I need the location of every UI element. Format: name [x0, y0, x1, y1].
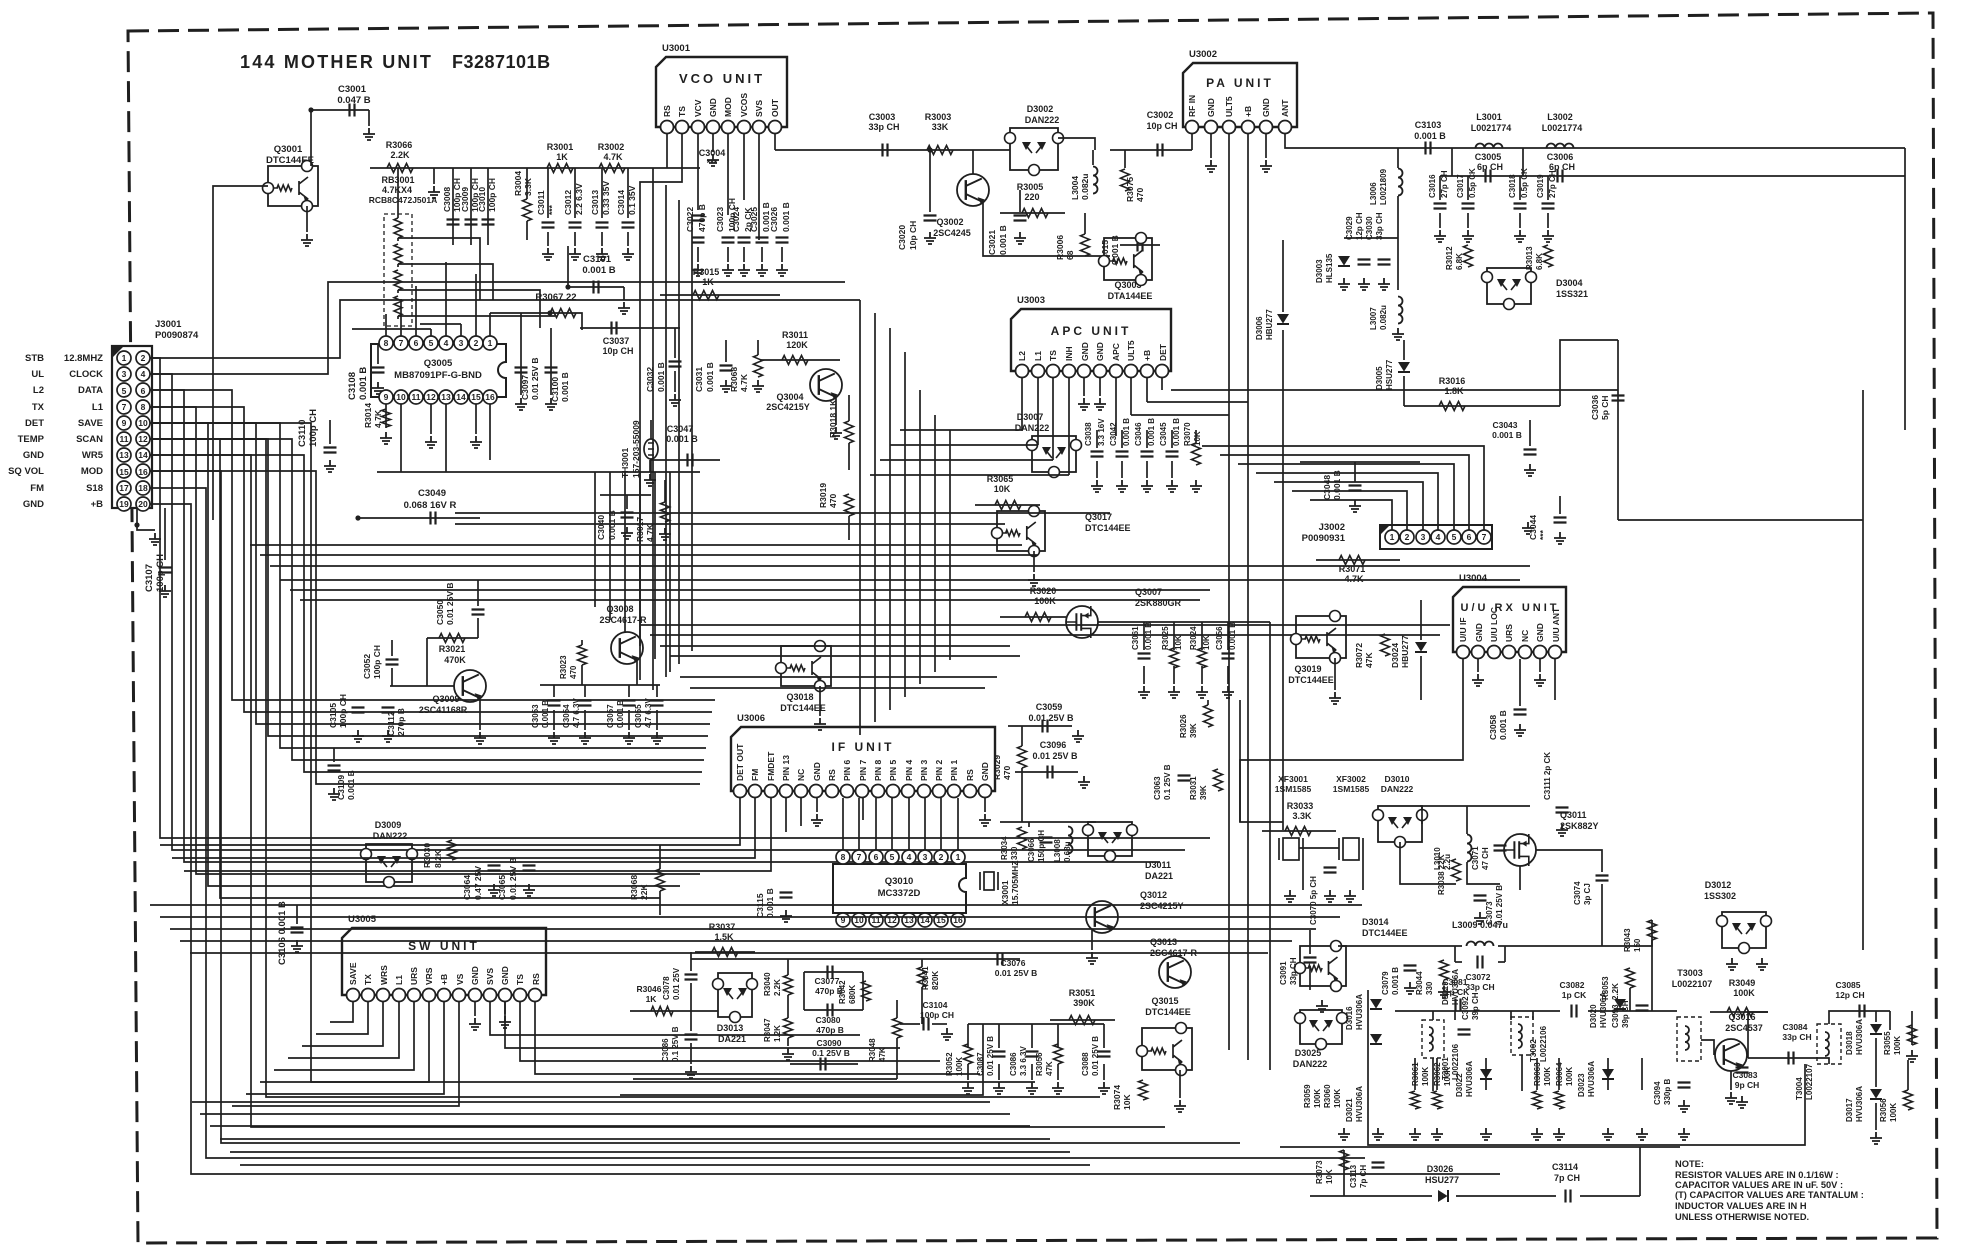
svg-text:D3007: D3007 — [1017, 412, 1044, 422]
pin 10 of J3001 — [136, 416, 150, 430]
wire C3046 b — [1146, 461, 1148, 478]
capacitor C3037 — [612, 322, 617, 335]
ground C3043 — [1524, 464, 1536, 476]
svg-text:100K: 100K — [1443, 1067, 1452, 1086]
svg-text:R3044: R3044 — [1415, 971, 1424, 995]
capacitor C3014 — [622, 223, 635, 228]
wire IF RS down — [862, 798, 864, 820]
svg-text:0.001 B: 0.001 B — [1492, 430, 1522, 440]
ground IF GND2 — [979, 814, 991, 826]
ground Q3009 — [474, 732, 486, 744]
svg-text:100p CH: 100p CH — [920, 1010, 954, 1020]
pin FMDET of U3006 — [765, 785, 778, 798]
wire Q3002 collector — [972, 150, 974, 174]
svg-text:D3002: D3002 — [1027, 104, 1054, 114]
bus wire ladder 11 — [670, 655, 1020, 657]
wire R3011 — [760, 359, 840, 361]
svg-text:4: 4 — [1436, 532, 1441, 542]
svg-text:8: 8 — [384, 338, 389, 348]
svg-text:R3006: R3006 — [1055, 235, 1065, 260]
wire C3056 b — [1227, 666, 1229, 684]
ground RX GND — [1472, 674, 1484, 686]
junction under J3001 — [134, 522, 139, 527]
resistor R3024 — [1198, 648, 1207, 668]
svg-text:9: 9 — [122, 418, 127, 428]
pin 13 of Q3005 — [439, 390, 453, 404]
wire C3038 — [1096, 430, 1098, 448]
capacitor C3096 — [1048, 766, 1053, 779]
svg-text:C3113: C3113 — [1349, 1164, 1358, 1188]
pin 3 of J3002 — [1416, 530, 1430, 544]
wire J3001 row 0 to mid bus — [150, 358, 1210, 838]
ground C3029 — [1358, 278, 1370, 290]
connector J3002 — [1380, 525, 1492, 549]
transistor Q3009 2SC41168R — [454, 670, 486, 702]
pin URS of U3004 — [1503, 646, 1516, 659]
svg-text:R3018 1K: R3018 1K — [828, 399, 838, 438]
svg-text:APC UNIT: APC UNIT — [1051, 324, 1132, 338]
capacitor C3043 — [1524, 450, 1537, 455]
ground C3046 — [1141, 480, 1153, 492]
pin GND of U3003 — [1078, 365, 1091, 378]
wire RX GND2 — [1539, 659, 1541, 672]
pin 14 of Q3010 — [918, 913, 932, 927]
svg-text:ULT5: ULT5 — [1224, 96, 1234, 117]
pin RF IN of U3002 — [1186, 121, 1199, 134]
diode D3023 — [1602, 1069, 1614, 1079]
svg-text:12: 12 — [426, 392, 436, 402]
wire R3052 b — [967, 1064, 969, 1080]
ground C3110 — [324, 460, 336, 472]
capacitor C3002 — [1158, 144, 1163, 157]
capacitor C3090 — [821, 1058, 826, 1071]
resistor R3019 — [845, 494, 854, 516]
pin 2 of J3001 — [136, 351, 150, 365]
wire D3003 row — [1344, 237, 1398, 239]
resistor R3071 — [1339, 556, 1365, 565]
wire C3072 rv — [1504, 946, 1506, 962]
svg-text:CAPACITOR VALUES ARE IN uF. 50: CAPACITOR VALUES ARE IN uF. 50V : — [1675, 1180, 1843, 1190]
svg-text:HBU277: HBU277 — [1265, 309, 1274, 340]
svg-text:L2: L2 — [33, 385, 44, 396]
svg-text:100K: 100K — [1543, 1067, 1552, 1086]
svg-text:2SC4537: 2SC4537 — [1725, 1023, 1763, 1033]
wire J3002 pin 5 up — [1238, 464, 1454, 530]
inductor T3001 coil — [1429, 1027, 1433, 1051]
pin ULT5 of U3003 — [1125, 365, 1138, 378]
pin PIN 4 of U3006 — [902, 785, 915, 798]
capacitor C3054 — [579, 701, 592, 706]
resistor R3016 — [1439, 402, 1465, 411]
bus wire ladder 3 — [260, 554, 1038, 556]
wire APC INH left — [870, 474, 1069, 476]
resistor R3015 — [693, 291, 719, 300]
svg-text:33p CH: 33p CH — [868, 122, 899, 132]
IC Q3005 MB87091PF-G-BND — [371, 344, 506, 397]
svg-text:12.8MHZ: 12.8MHZ — [64, 353, 103, 364]
svg-text:R3075: R3075 — [1125, 177, 1135, 202]
svg-text:R3060: R3060 — [1323, 1084, 1332, 1108]
svg-text:C3094: C3094 — [1653, 1081, 1662, 1105]
svg-text:D3005: D3005 — [1375, 366, 1384, 390]
ground R3055 — [1906, 1050, 1918, 1062]
svg-text:3.3 16V: 3.3 16V — [1097, 418, 1106, 446]
svg-text:C3097: C3097 — [520, 375, 530, 400]
svg-text:4: 4 — [907, 852, 912, 862]
wire J3001 pin row 6 down-right — [150, 455, 1165, 1127]
svg-text:0.5p CK: 0.5p CK — [1468, 168, 1477, 198]
capacitor C3026 — [776, 238, 789, 243]
wire C3078 b — [690, 983, 692, 1031]
svg-text:L0021809: L0021809 — [1379, 168, 1388, 205]
ground SW GND — [469, 1018, 481, 1030]
wire C3042 — [1121, 430, 1123, 448]
svg-text:100K: 100K — [1889, 1103, 1898, 1122]
wire R3020 — [1000, 616, 1066, 618]
capacitor C3003 — [883, 144, 888, 157]
svg-text:(T) CAPACITOR VALUES ARE TANTA: (T) CAPACITOR VALUES ARE TANTALUM : — [1675, 1190, 1864, 1200]
svg-text:0.001 B: 0.001 B — [1391, 967, 1400, 995]
capacitor C3048 — [1349, 486, 1362, 491]
capacitor C3004 — [692, 216, 705, 221]
resistor RB3001 element 4 — [394, 296, 402, 316]
resistor network RB3001 dashed box — [384, 214, 412, 326]
wire C3082 l — [1540, 1010, 1560, 1012]
pin PIN 8 of U3006 — [872, 785, 885, 798]
svg-text:3.3K: 3.3K — [523, 177, 533, 196]
svg-text:C3082: C3082 — [1559, 980, 1584, 990]
ground C3013 — [596, 248, 608, 260]
capacitor C3093 — [1636, 1006, 1649, 1011]
wire RX row v2 x1533 — [1532, 1011, 1534, 1020]
svg-text:C3052: C3052 — [362, 654, 372, 679]
capacitor C3105 — [352, 708, 365, 713]
svg-text:D3018: D3018 — [1845, 1031, 1854, 1055]
pin 6 of Q3010 — [869, 850, 883, 864]
svg-text:UNLESS OTHERWISE NOTED.: UNLESS OTHERWISE NOTED. — [1675, 1212, 1809, 1222]
wire RX rail mid — [1395, 1010, 1540, 1012]
svg-text:DTC144EE: DTC144EE — [1145, 1007, 1191, 1017]
wire Q3005 top pin x476 — [475, 274, 477, 336]
wire VCO VCOS down — [743, 134, 745, 200]
svg-text:+B: +B — [91, 499, 104, 510]
resistor R3017 — [661, 502, 670, 522]
svg-text:ULT5: ULT5 — [1126, 340, 1136, 361]
svg-text:100p CH: 100p CH — [487, 178, 497, 212]
svg-text:R3026: R3026 — [1179, 714, 1188, 738]
bus vertical center 9 — [934, 415, 936, 672]
ground R3017 — [659, 528, 671, 540]
unit U3003 APC UNIT — [1011, 309, 1171, 371]
svg-text:GND: GND — [1474, 623, 1484, 642]
svg-text:U3004: U3004 — [1459, 573, 1488, 584]
svg-text:47K: 47K — [1364, 652, 1374, 668]
svg-text:4.7 6.3V: 4.7 6.3V — [572, 698, 581, 728]
ground XF3002 — [1344, 890, 1356, 902]
bus wire RX bottom rail — [1280, 1146, 1680, 1148]
svg-text:FMDET: FMDET — [766, 751, 776, 781]
svg-text:PIN 3: PIN 3 — [919, 759, 929, 781]
wire C3077 lv — [803, 972, 805, 1010]
svg-text:Q3005: Q3005 — [424, 358, 453, 369]
svg-text:INH: INH — [1064, 346, 1074, 361]
wire XF input up — [1239, 700, 1241, 822]
pin MOD of U3001 — [722, 121, 735, 134]
capacitor C3040 — [621, 513, 634, 518]
svg-text:SAVE: SAVE — [78, 418, 103, 429]
svg-text:2SC4215Y: 2SC4215Y — [766, 402, 810, 412]
wire R3040 m — [787, 995, 789, 1018]
svg-text:TS: TS — [677, 106, 687, 117]
bus wire RX loop — [1368, 990, 1805, 1145]
capacitor C3055 — [651, 701, 664, 706]
svg-text:C3072: C3072 — [1465, 972, 1490, 982]
capacitor C3038 — [1091, 452, 1104, 457]
svg-text:R3073: R3073 — [1315, 1160, 1324, 1184]
pin PIN 2 of U3006 — [933, 785, 946, 798]
pin 11 of Q3005 — [409, 390, 423, 404]
pin RS of U3005 — [529, 989, 542, 1002]
wire VCO OUT down — [774, 134, 776, 150]
svg-text:0.33 35V: 0.33 35V — [601, 181, 611, 215]
svg-text:7p CH: 7p CH — [1359, 1165, 1368, 1188]
wire L3009 to R3043 — [1545, 920, 1652, 946]
pin GND of U3002 — [1260, 121, 1273, 134]
wire IF to Q3010 pin 7 — [858, 798, 860, 850]
pin GND of U3002 — [1205, 121, 1218, 134]
svg-text:C3016: C3016 — [1428, 174, 1437, 198]
wire APC pin drop 0 — [1021, 378, 1023, 430]
pin 12 of J3001 — [136, 432, 150, 446]
svg-text:C3108: C3108 — [347, 372, 358, 400]
wire IF DET OUT left — [160, 798, 740, 845]
svg-text:R3047: R3047 — [763, 1018, 772, 1042]
ground C3012 — [569, 248, 581, 260]
capacitor C3103 — [1426, 142, 1431, 155]
svg-text:DAN222: DAN222 — [1293, 1059, 1328, 1069]
resistor R3068 4.7K — [754, 355, 763, 377]
pin 12 of Q3005 — [424, 390, 438, 404]
ground C3115 — [780, 910, 792, 922]
pin 5 of J3002 — [1447, 530, 1461, 544]
resistor R3075 — [1121, 169, 1130, 191]
ground C3059 — [1072, 730, 1084, 742]
wire R3029 b — [1021, 768, 1023, 822]
wire J3001 row 2 to mid bus — [150, 390, 1160, 862]
wire bias rail y168 — [370, 167, 700, 169]
bus vertical center 3 — [691, 215, 693, 651]
capacitor C3081 — [1456, 999, 1461, 1012]
pin L2 of U3003 — [1016, 365, 1029, 378]
svg-text:0.01 25V B: 0.01 25V B — [508, 857, 518, 900]
svg-text:C3012: C3012 — [563, 190, 573, 215]
svg-text:C3091: C3091 — [1279, 961, 1288, 985]
svg-text:PIN 6: PIN 6 — [842, 759, 852, 781]
svg-text:1.2K: 1.2K — [773, 1025, 782, 1042]
wire C3057 — [628, 685, 630, 697]
wire R3040 t — [787, 959, 789, 975]
ground R3047 — [782, 1048, 794, 1060]
svg-text:R3068: R3068 — [629, 875, 639, 900]
svg-text:RS: RS — [965, 769, 975, 781]
svg-text:Q3007: Q3007 — [1135, 587, 1162, 597]
wire C3087 t — [998, 1024, 1000, 1048]
pin RS of U3006 — [964, 785, 977, 798]
ground VCO GND — [707, 154, 719, 166]
svg-text:1: 1 — [122, 353, 127, 363]
capacitor C3111 — [1556, 808, 1569, 813]
svg-text:0.5p CK: 0.5p CK — [1520, 168, 1529, 198]
svg-text:C3063: C3063 — [1153, 776, 1162, 800]
svg-text:12: 12 — [138, 434, 148, 444]
ground J3001 — [149, 533, 161, 545]
capacitor C3091 — [1304, 958, 1317, 963]
resistor R3013 — [1544, 245, 1553, 267]
svg-text:100K: 100K — [1733, 988, 1755, 998]
wire R3048 b — [896, 1038, 898, 1079]
svg-text:URS: URS — [1504, 624, 1514, 642]
wire R3019 b — [848, 516, 850, 540]
wire D3024 b — [1420, 656, 1422, 700]
capacitor C3057 — [623, 701, 636, 706]
bus vertical center 0 — [652, 168, 654, 690]
ground XF3001 — [1284, 890, 1296, 902]
transistor Q3019 DTC144EE — [1296, 616, 1346, 658]
svg-text:D3012: D3012 — [1705, 880, 1732, 890]
ground bottom x1344 — [1338, 1128, 1350, 1140]
svg-text:C3043: C3043 — [1492, 420, 1517, 430]
pin 6 of J3001 — [136, 383, 150, 397]
svg-text:L1: L1 — [92, 402, 104, 413]
resistor R3056 — [1054, 1044, 1063, 1064]
svg-text:HVU306A: HVU306A — [1355, 1086, 1364, 1122]
svg-text:C3017: C3017 — [1456, 174, 1465, 198]
pin 1 of J3002 — [1385, 530, 1399, 544]
wire C3078 t — [690, 952, 692, 971]
svg-text:10: 10 — [396, 392, 406, 402]
pin TS of U3005 — [514, 989, 527, 1002]
svg-text:DAN222: DAN222 — [1381, 784, 1414, 794]
wire C3020 — [929, 150, 931, 212]
svg-text:R3066: R3066 — [386, 140, 413, 150]
diode D3025 DAN222 — [1300, 1010, 1342, 1044]
ground IF GND — [811, 814, 823, 826]
wire SW pin 1 left — [316, 1002, 368, 1034]
svg-text:470K: 470K — [444, 655, 466, 665]
svg-text:R3051: R3051 — [1069, 988, 1096, 998]
resistor R3073 — [1340, 1150, 1349, 1170]
svg-text:0.082u: 0.082u — [1080, 174, 1090, 200]
svg-text:7: 7 — [399, 338, 404, 348]
svg-text:0.068 16V R: 0.068 16V R — [404, 500, 457, 511]
svg-text:C3023: C3023 — [715, 207, 725, 232]
svg-text:C3056: C3056 — [1215, 626, 1224, 650]
svg-text:SVS: SVS — [754, 100, 764, 117]
wire Q3005 top pin x386 — [385, 314, 387, 336]
pin PIN 7 of U3006 — [856, 785, 869, 798]
pin 14 of Q3005 — [454, 390, 468, 404]
ground bottom x1486 — [1480, 1128, 1492, 1140]
svg-text:C3084: C3084 — [1782, 1022, 1807, 1032]
svg-text:TS: TS — [515, 974, 525, 985]
pin 6 of Q3005 — [409, 336, 423, 350]
wire C3086 b — [690, 1043, 692, 1064]
thermistor TH3001 — [644, 439, 658, 459]
ground C3057 — [623, 732, 635, 744]
wire C3056 — [1227, 622, 1229, 650]
svg-text:0.082u: 0.082u — [1379, 305, 1388, 330]
svg-text:18: 18 — [138, 483, 148, 493]
pin RS of U3006 — [826, 785, 839, 798]
pin OUT of U3001 — [769, 121, 782, 134]
wire Q3011 gate rail — [1420, 805, 1530, 807]
svg-text:HVU306A: HVU306A — [1855, 1019, 1864, 1055]
capacitor C3092 — [1458, 1030, 1471, 1035]
transistor Q3016 2SC4537 — [1715, 1039, 1747, 1071]
capacitor C3005 — [1486, 170, 1491, 183]
svg-text:F3287101B: F3287101B — [452, 52, 551, 72]
bus wire ladder 5 — [280, 579, 1520, 581]
pin 2 of J3002 — [1400, 530, 1414, 544]
svg-text:DTC144EE: DTC144EE — [1085, 523, 1131, 533]
svg-text:16: 16 — [138, 467, 148, 477]
wire RX row v x1486 — [1485, 1058, 1487, 1090]
svg-text:330: 330 — [1010, 846, 1019, 860]
wire C3010 — [487, 168, 489, 245]
ground bottom x1537 — [1531, 1128, 1543, 1140]
wire APC pin drop 3 — [1068, 378, 1070, 475]
svg-text:C3096: C3096 — [1040, 740, 1067, 750]
capacitor C3001 — [350, 104, 355, 117]
svg-text:DAN222: DAN222 — [373, 831, 408, 841]
pin PIN 6 of U3006 — [841, 785, 854, 798]
ground bottom x1684 — [1678, 1128, 1690, 1140]
pin 14 of J3001 — [136, 448, 150, 462]
svg-text:Q3010: Q3010 — [885, 876, 914, 887]
capacitor C3106 — [291, 928, 304, 933]
svg-text:TX: TX — [32, 402, 45, 413]
svg-text:2.2K: 2.2K — [390, 150, 410, 160]
svg-text:100p CH: 100p CH — [308, 409, 319, 447]
svg-text:15.705MHZ: 15.705MHZ — [1010, 861, 1020, 905]
wire to PA RF IN — [1110, 149, 1192, 151]
svg-text:NOTE:: NOTE: — [1675, 1159, 1704, 1169]
ground C3048 — [1349, 500, 1361, 512]
pin 12 of Q3010 — [885, 913, 899, 927]
svg-text:C3104: C3104 — [922, 1000, 947, 1010]
wire R3016 row — [1404, 405, 1560, 407]
bus wire bottom mid 0 — [150, 904, 1362, 906]
diode D3022 — [1480, 1069, 1492, 1079]
svg-text:+B: +B — [439, 974, 449, 985]
ground Q3017 — [1028, 574, 1040, 586]
svg-text:0.001 B: 0.001 B — [358, 367, 369, 400]
svg-text:HVU306A: HVU306A — [1599, 992, 1608, 1028]
wire R3052 t — [967, 1024, 969, 1048]
wire C3017 — [1467, 176, 1469, 200]
capacitor C3019 — [1542, 204, 1555, 209]
wire R3073 to bottom rail — [1343, 1150, 1345, 1196]
svg-text:TX: TX — [363, 974, 373, 985]
wire C3026 b — [781, 247, 783, 262]
svg-text:5: 5 — [122, 386, 127, 396]
svg-text:DTC144EE: DTC144EE — [1288, 675, 1334, 685]
wire Q3002 emitter right — [983, 203, 1110, 256]
capacitor C3065 — [523, 866, 536, 871]
transistor Q3018 DTC144EE — [781, 646, 831, 686]
wire Q3004 emitter — [835, 398, 837, 425]
wire R3025 — [1173, 622, 1175, 650]
